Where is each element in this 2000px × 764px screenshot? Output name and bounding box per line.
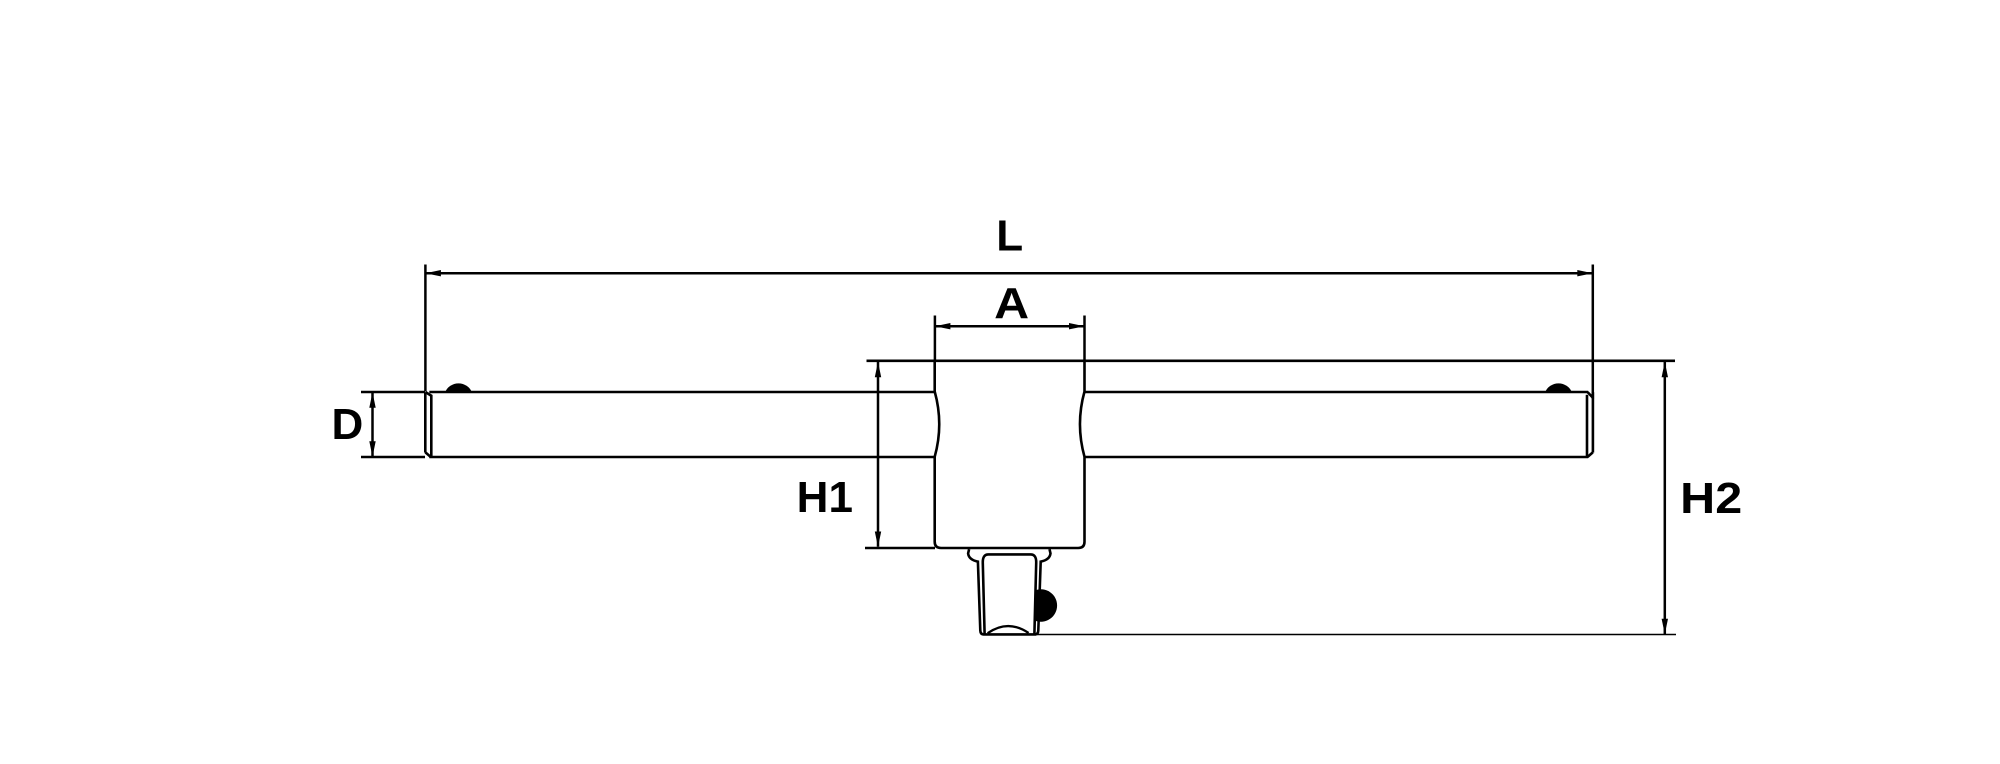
head bottom extension line (H1 lower reference) (865, 547, 935, 550)
arrowhead A left (935, 323, 951, 329)
bar left end top chamfer (426, 392, 432, 396)
arrowhead A right (1069, 323, 1085, 329)
H2 bottom extension line (1037, 634, 1676, 636)
D extension line top (361, 391, 425, 394)
bar top edge left segment (429, 391, 935, 394)
bar right end chamfer edge (1586, 395, 1589, 457)
dimension line D (371, 392, 374, 457)
bar left end chamfer edge (430, 395, 433, 457)
square drive collar outer left (968, 549, 1035, 634)
arrowhead D top (369, 392, 375, 408)
head top extension line (H1/H2 upper reference) (867, 359, 1676, 362)
ball detent right end of bar (1545, 383, 1572, 392)
dimension line L (425, 272, 1592, 275)
square drive tip chamfer arc (988, 626, 1029, 633)
arrowhead H2 bottom (1662, 619, 1668, 635)
ball detent left end of bar (445, 383, 472, 392)
bar bottom edge right segment (1084, 456, 1588, 459)
bar left end bottom chamfer (425, 452, 430, 457)
bar left end face edge (424, 392, 427, 452)
bar top edge right segment (1084, 391, 1588, 394)
dimension line H1 (877, 362, 880, 547)
svg-text:D: D (332, 400, 364, 449)
A extension line left (934, 316, 937, 361)
L extension line left (424, 265, 427, 392)
A extension line right (1083, 316, 1086, 361)
arrowhead L right (1577, 270, 1593, 276)
ball detent on square drive (1035, 589, 1057, 621)
svg-text:H2: H2 (1680, 474, 1742, 523)
D extension line bottom (361, 456, 425, 459)
head block U1 outline (935, 361, 1085, 548)
dimension line A (935, 325, 1085, 328)
arrowhead H1 top (875, 362, 881, 378)
dimension line H2 (1664, 362, 1667, 634)
bar right end top chamfer (1588, 392, 1593, 398)
svg-text:H1: H1 (797, 473, 853, 522)
square drive collar outer right (1035, 549, 1050, 634)
L extension line right (1592, 265, 1595, 400)
arrowhead H1 bottom (875, 532, 881, 548)
bar right end bottom chamfer (1588, 452, 1593, 457)
arrowhead L left (425, 270, 441, 276)
bar bottom edge left segment (429, 456, 935, 459)
svg-text:L: L (996, 212, 1023, 261)
arrowhead D bottom (369, 441, 375, 457)
bar right end face edge (1592, 392, 1595, 452)
arrowhead H2 top (1662, 362, 1668, 378)
svg-text:A: A (994, 279, 1029, 328)
square drive front face (983, 554, 1036, 634)
